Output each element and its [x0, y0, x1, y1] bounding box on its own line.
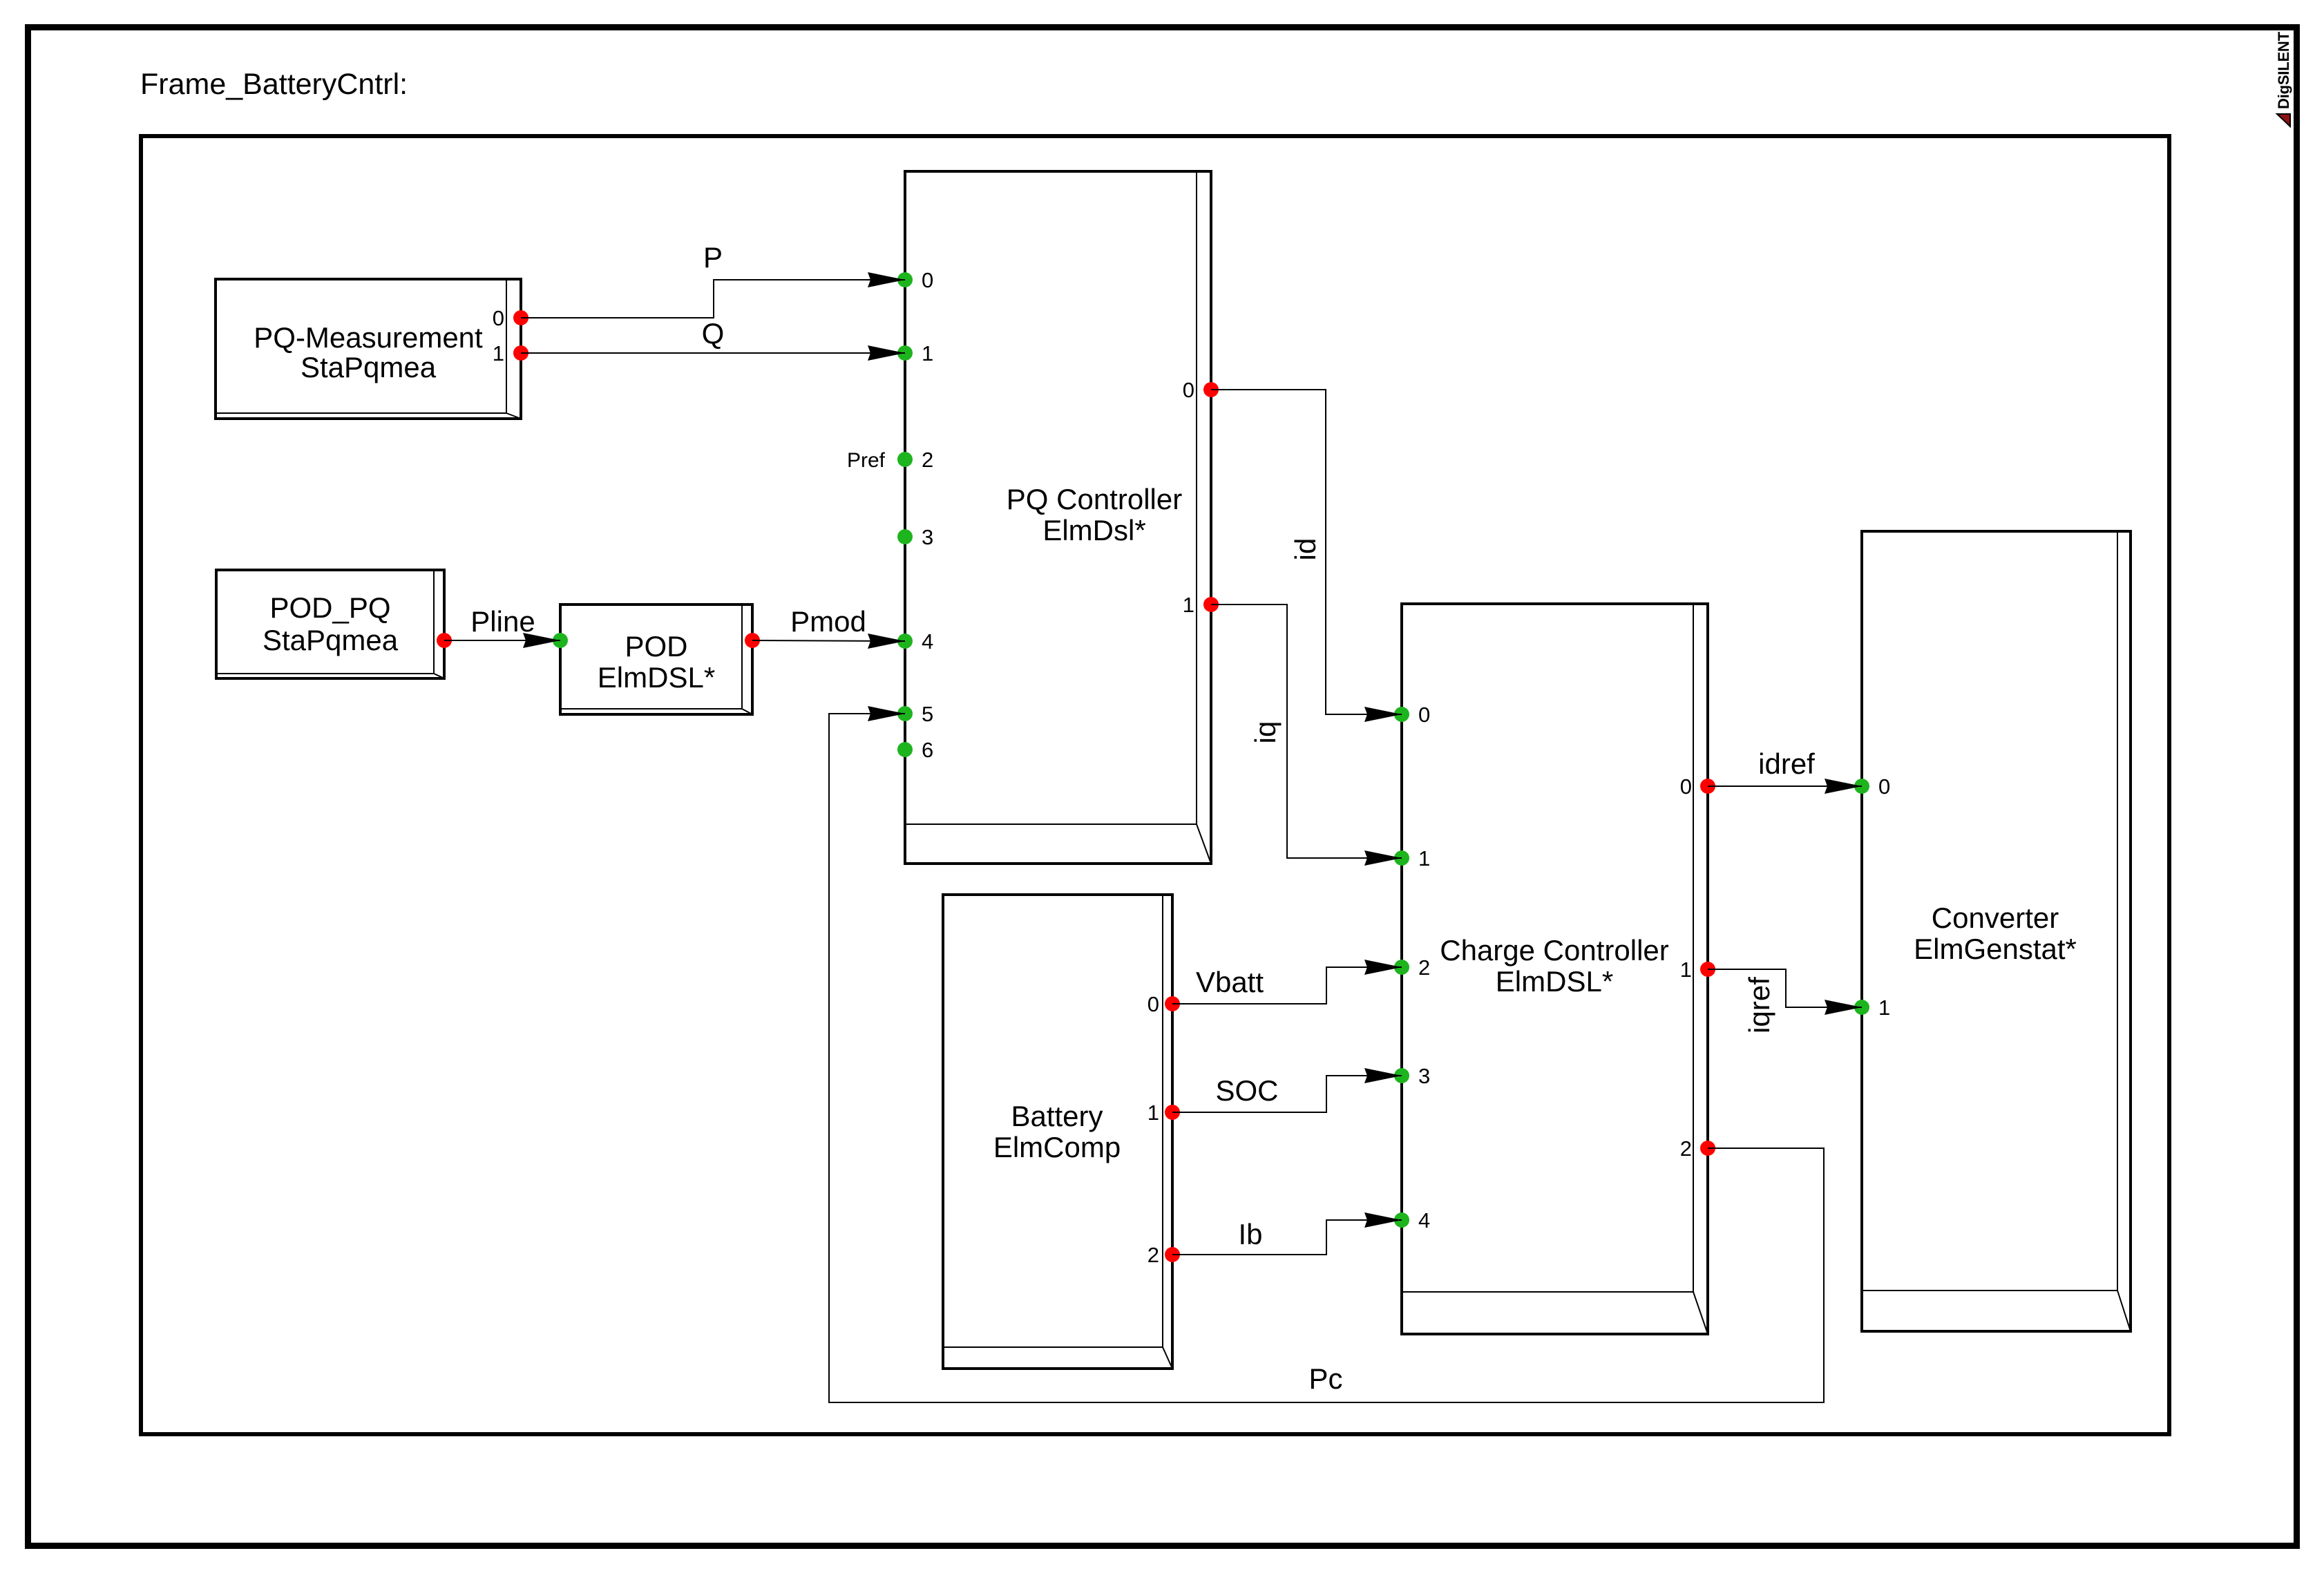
svg-text:0: 0 — [493, 306, 504, 330]
svg-text:2: 2 — [1680, 1136, 1692, 1161]
svg-text:ElmGenstat*: ElmGenstat* — [1914, 933, 2077, 965]
svg-text:Pc: Pc — [1308, 1362, 1342, 1395]
svg-text:SOC: SOC — [1215, 1074, 1278, 1107]
svg-text:ElmDSL*: ElmDSL* — [1496, 965, 1613, 998]
svg-text:2: 2 — [1147, 1243, 1159, 1267]
svg-text:1: 1 — [1147, 1101, 1159, 1125]
svg-text:iqref: iqref — [1743, 977, 1775, 1034]
svg-text:2: 2 — [1418, 955, 1430, 980]
svg-text:Vbatt: Vbatt — [1196, 966, 1264, 998]
svg-text:Battery: Battery — [1011, 1100, 1103, 1132]
svg-text:0: 0 — [922, 268, 933, 292]
svg-text:ElmComp: ElmComp — [993, 1131, 1121, 1163]
svg-text:Converter: Converter — [1932, 902, 2059, 934]
svg-text:PQ-Measurement: PQ-Measurement — [254, 321, 483, 354]
svg-text:iq: iq — [1249, 721, 1282, 744]
svg-text:Frame_BatteryCntrl:: Frame_BatteryCntrl: — [140, 68, 408, 101]
svg-text:DigSILENT: DigSILENT — [2275, 31, 2292, 109]
svg-text:3: 3 — [1418, 1064, 1430, 1088]
svg-text:1: 1 — [1183, 593, 1194, 617]
svg-text:0: 0 — [1147, 992, 1159, 1016]
svg-text:Pmod: Pmod — [790, 605, 866, 638]
svg-text:Pline: Pline — [470, 605, 535, 638]
svg-text:4: 4 — [1418, 1208, 1430, 1232]
svg-text:5: 5 — [922, 702, 933, 726]
svg-text:2: 2 — [922, 448, 933, 472]
svg-text:0: 0 — [1680, 774, 1692, 799]
svg-text:0: 0 — [1418, 703, 1430, 727]
svg-text:ElmDSL*: ElmDSL* — [598, 661, 715, 694]
svg-text:1: 1 — [1418, 846, 1430, 870]
svg-text:1: 1 — [1878, 996, 1890, 1020]
svg-text:P: P — [703, 241, 723, 274]
svg-text:4: 4 — [922, 629, 933, 654]
svg-text:1: 1 — [922, 341, 933, 365]
svg-text:6: 6 — [922, 738, 933, 762]
svg-text:Charge Controller: Charge Controller — [1440, 934, 1669, 967]
svg-text:idref: idref — [1758, 748, 1815, 780]
svg-text:StaPqmea: StaPqmea — [301, 351, 437, 383]
svg-text:1: 1 — [1680, 958, 1692, 982]
svg-text:StaPqmea: StaPqmea — [263, 624, 399, 656]
svg-text:0: 0 — [1878, 774, 1890, 799]
svg-text:Pref: Pref — [847, 449, 886, 472]
svg-text:1: 1 — [493, 341, 504, 365]
svg-text:POD: POD — [625, 630, 687, 663]
svg-text:PQ Controller: PQ Controller — [1007, 483, 1182, 515]
svg-text:0: 0 — [1183, 378, 1194, 402]
svg-text:Ib: Ib — [1238, 1218, 1262, 1250]
svg-text:Q: Q — [702, 317, 725, 350]
svg-text:ElmDsl*: ElmDsl* — [1042, 514, 1145, 546]
svg-text:id: id — [1289, 538, 1322, 561]
svg-text:POD_PQ: POD_PQ — [269, 591, 390, 624]
svg-text:3: 3 — [922, 525, 933, 549]
